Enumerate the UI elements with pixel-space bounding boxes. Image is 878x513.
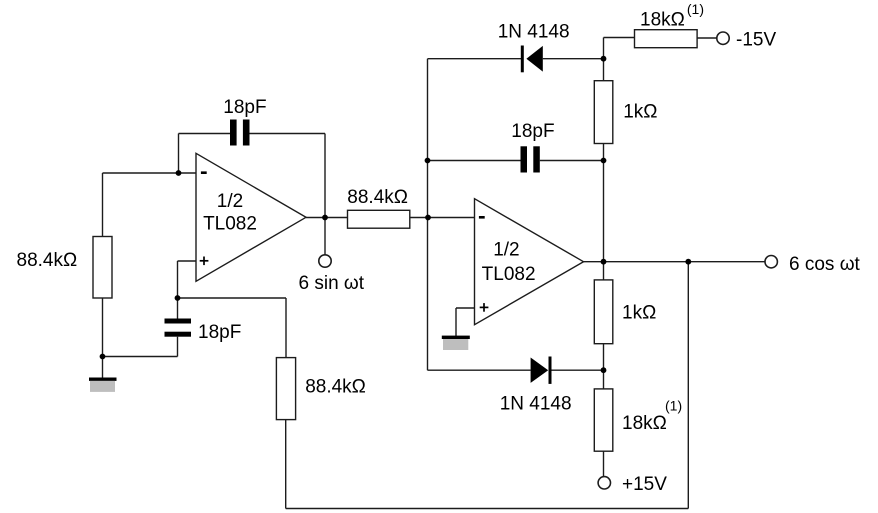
terminal: +15V circle: [598, 477, 610, 489]
svg-text:88.4kΩ: 88.4kΩ: [17, 250, 78, 271]
svg-text:18pF: 18pF: [223, 97, 266, 118]
svg-text:TL082: TL082: [482, 264, 536, 285]
svg-text:18pF: 18pF: [511, 121, 554, 142]
junction: U1B output node: [601, 259, 607, 265]
label: U1A minus input: [201, 171, 207, 174]
resistor R5 1k (top right vertical): [594, 81, 613, 144]
wire: feedback riser down to U1A output node and to terminal: [324, 134, 326, 255]
svg-text:1/2: 1/2: [493, 240, 519, 261]
wire: R5 bottom to cap node: [603, 144, 605, 161]
wire: down to R3 top: [285, 298, 287, 358]
wire: + input riser down to node: [177, 261, 179, 319]
wire: node down to R5: [603, 59, 605, 81]
op-amp U1A triangle: [196, 153, 306, 281]
wire: C2 bottom lead: [177, 337, 179, 357]
svg-text:18pF: 18pF: [198, 322, 241, 343]
wire: riser from inverting node up to C1: [178, 134, 180, 174]
resistor R2 88.4k (horizontal): [348, 210, 410, 228]
label: U1B plus input: [480, 306, 489, 308]
capacitor C2 18pF plates (vertical): [165, 319, 192, 337]
wire: R6 bottom to diode node: [603, 344, 605, 389]
wire: C2 bottom to ground node: [103, 356, 178, 358]
wire: D1 right lead to node: [543, 58, 604, 60]
label: U1B minus input: [479, 216, 485, 219]
svg-text:(1): (1): [665, 398, 682, 414]
svg-text:18kΩ: 18kΩ: [640, 10, 685, 31]
ground GND1 (left): [89, 378, 117, 392]
diode D1 1N4148 (pointing left): [521, 46, 543, 73]
wire: bottom diode left lead: [428, 369, 531, 371]
resistor R3 88.4k (bottom mid vertical): [276, 358, 295, 420]
resistor R4 18k (top horizontal): [635, 30, 698, 48]
wire: U1A + input horizontal: [178, 260, 197, 262]
svg-text:1kΩ: 1kΩ: [623, 102, 657, 123]
wire: bottom rail: [286, 508, 689, 510]
ground GND2 (U1B + input): [442, 336, 470, 350]
junction: bottom diode node: [601, 367, 607, 373]
label: U1A plus input: [200, 260, 209, 262]
wire: U1B output: [584, 261, 766, 263]
wire: left vertical R1 top lead: [102, 173, 104, 237]
svg-text:TL082: TL082: [203, 213, 257, 234]
capacitor C1 18pF plates: [230, 120, 250, 146]
wire: R7 bottom to +15V terminal: [603, 451, 605, 476]
svg-text:1kΩ: 1kΩ: [622, 303, 656, 324]
wire: R4 right to -15V terminal: [697, 37, 717, 39]
junction: U1A output node: [322, 215, 328, 221]
wire: right bus cap node to output node: [603, 161, 605, 262]
terminal: 6 cos wt circle: [765, 256, 777, 268]
wire: to R4 left: [604, 37, 635, 39]
svg-text:-15V: -15V: [736, 30, 776, 51]
wire: right loop riser: [687, 262, 689, 509]
wire: top diode left lead: [428, 58, 522, 60]
junction: inverting node U1A: [176, 170, 182, 176]
wire: + node right to R3: [178, 297, 287, 299]
wire: R1 bottom lead down to ground: [102, 298, 104, 378]
wire: R2 right to U1B inverting input: [410, 217, 475, 219]
wire: R1 top to U1A inverting input: [103, 172, 197, 174]
wire: C1 right lead: [250, 133, 326, 135]
junction: + input node U1A: [175, 295, 181, 301]
op-amp U1B triangle: [475, 199, 584, 325]
resistor R7 18k (bottom right vertical): [594, 389, 613, 451]
junction: C3 right node: [601, 158, 607, 164]
wire: C3 right lead: [540, 160, 604, 162]
junction: ground node left: [100, 354, 106, 360]
svg-text:+15V: +15V: [622, 474, 667, 495]
svg-text:6 sin ωt: 6 sin ωt: [299, 273, 365, 294]
junction: top diode node: [601, 56, 607, 62]
terminal: 6 sin wt circle: [319, 255, 331, 267]
wire: U1B + input: [456, 307, 475, 309]
junction: bus/C3 left: [425, 158, 431, 164]
diode D2 1N4148 (pointing right): [531, 357, 552, 384]
wire: C1 left lead: [179, 133, 231, 135]
wire: riser to R4: [603, 38, 605, 59]
svg-text:1N 4148: 1N 4148: [500, 394, 572, 415]
wire: R3 bottom to bottom rail: [285, 420, 287, 509]
wire: D2 right lead to node: [552, 369, 604, 371]
wire: + input down to ground: [455, 308, 457, 336]
svg-text:18kΩ: 18kΩ: [622, 413, 667, 434]
junction: output/right loop node: [685, 259, 691, 265]
svg-text:88.4kΩ: 88.4kΩ: [305, 376, 366, 397]
svg-text:6 cos ωt: 6 cos ωt: [789, 254, 861, 275]
resistor R1 88.4k (left vertical): [93, 237, 112, 299]
svg-text:88.4kΩ: 88.4kΩ: [347, 187, 408, 208]
terminal: -15V circle: [717, 32, 729, 44]
capacitor C3 18pF plates: [521, 146, 540, 172]
op-amp input polarity marks: [201, 171, 485, 218]
svg-text:1N 4148: 1N 4148: [498, 22, 570, 43]
wire: C3 left lead: [428, 160, 521, 162]
wire: left vertical bus of U1B network: [427, 59, 429, 371]
wire: output node down to R6: [603, 262, 605, 280]
junction: R2/U1B input node: [425, 215, 431, 221]
svg-text:1/2: 1/2: [217, 191, 243, 212]
svg-text:(1): (1): [687, 1, 704, 17]
wire: U1A output to R2: [306, 217, 348, 219]
resistor R6 1k (mid right vertical): [594, 280, 613, 344]
